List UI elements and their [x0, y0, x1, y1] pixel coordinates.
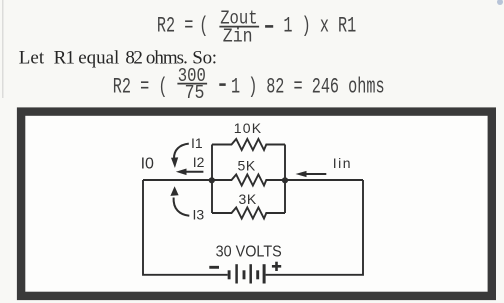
svg-text:5K: 5K — [238, 157, 256, 173]
svg-text:I2: I2 — [193, 154, 205, 170]
svg-text:Iin: Iin — [333, 155, 352, 171]
svg-text:82 = 246 ohms: 82 = 246 ohms — [266, 74, 384, 100]
svg-text:Zin: Zin — [223, 26, 253, 48]
svg-text:R2 = (: R2 = ( — [113, 74, 168, 100]
svg-text:3K: 3K — [239, 191, 257, 207]
svg-text:75: 75 — [185, 83, 205, 105]
svg-text:): ) — [248, 74, 257, 100]
svg-text:1: 1 — [231, 74, 240, 100]
svg-text:I3: I3 — [193, 207, 205, 223]
svg-text:I1: I1 — [191, 135, 203, 151]
svg-text:30 VOLTS: 30 VOLTS — [216, 243, 282, 261]
svg-text:R2 =: R2 = — [157, 13, 193, 39]
svg-text:10K: 10K — [234, 120, 263, 136]
svg-text:1 ) x R1: 1 ) x R1 — [283, 13, 356, 39]
svg-text:I0: I0 — [141, 156, 154, 173]
svg-text:(: ( — [199, 13, 208, 39]
